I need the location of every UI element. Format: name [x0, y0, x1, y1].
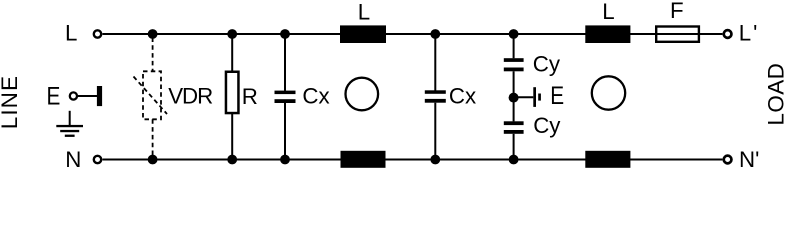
choke L1 core circle: [346, 78, 379, 111]
wire E stub: [78, 95, 97, 97]
wire bottom N line: [103, 159, 723, 161]
svg-text:Cy: Cy: [533, 113, 561, 138]
choke L2 core circle: [592, 76, 625, 109]
junction R top: [227, 29, 237, 39]
capacitor Cy2 plate top: [504, 121, 524, 125]
terminal N: [94, 156, 101, 163]
svg-text:N': N': [739, 147, 759, 172]
node E junction dot: [509, 93, 519, 103]
capacitor Cy1 plate bottom: [504, 68, 524, 72]
varistor VDR dashed diagonal: [134, 77, 168, 115]
choke L2 bottom winding: [585, 151, 630, 168]
capacitor Cx2 plate top: [425, 90, 446, 94]
svg-text:E: E: [47, 82, 61, 110]
junction Cx1 bottom: [280, 155, 290, 165]
svg-text:N: N: [65, 147, 81, 172]
junction Cx1 top: [280, 29, 290, 39]
capacitor Cx2 lead bottom: [434, 103, 436, 160]
resistor R body: [226, 72, 239, 113]
terminal L': [724, 30, 732, 38]
junction Cx2 bottom: [430, 155, 440, 165]
capacitor Cy2 plate bottom: [504, 130, 524, 134]
E tap tall bar: [533, 87, 536, 107]
ground stem: [69, 111, 71, 126]
wire Cy middle: [513, 71, 515, 121]
svg-text:L: L: [602, 0, 614, 24]
junction Cy bottom: [509, 155, 519, 165]
E contact bar: [97, 86, 102, 106]
varistor VDR dashed lead top: [152, 38, 154, 72]
capacitor Cx1 lead top: [284, 34, 286, 91]
svg-text:R: R: [242, 84, 258, 109]
terminal L: [94, 30, 101, 37]
svg-text:L: L: [65, 21, 77, 46]
capacitor Cx2 plate bottom: [425, 99, 446, 103]
capacitor Cx1 plate bottom: [275, 99, 296, 103]
svg-text:F: F: [670, 0, 684, 23]
terminal N': [724, 156, 732, 164]
wire top L line: [103, 33, 723, 35]
svg-text:Cx: Cx: [302, 84, 329, 109]
svg-text:Cx: Cx: [449, 84, 476, 109]
capacitor Cx1 plate top: [275, 91, 296, 95]
capacitor Cy bottom lead: [513, 134, 515, 160]
capacitor Cy1 plate top: [504, 58, 524, 62]
svg-text:VDR: VDR: [168, 83, 213, 108]
ground bar 2: [60, 130, 79, 132]
junction Cx2 top: [430, 29, 440, 39]
junction VDR bottom: [148, 155, 158, 165]
junction VDR top: [148, 29, 158, 39]
varistor VDR dashed lead bottom: [152, 119, 154, 155]
resistor R leads: [231, 34, 233, 160]
capacitor Cx2 lead top: [434, 34, 436, 91]
svg-text:LINE: LINE: [0, 75, 22, 129]
fuse F body: [656, 27, 699, 42]
svg-text:L: L: [358, 0, 370, 24]
svg-text:Cy: Cy: [533, 52, 561, 77]
terminal E (left) circle: [70, 92, 77, 99]
ground bar 1: [56, 125, 83, 127]
junction R bottom: [227, 155, 237, 165]
svg-text:L': L': [739, 20, 760, 45]
ground bar 3: [65, 135, 75, 137]
capacitor Cx1 lead bottom: [284, 103, 286, 160]
wire to E tap: [514, 96, 534, 98]
choke L1 bottom winding: [341, 151, 386, 168]
choke L1 top winding: [340, 25, 386, 43]
varistor VDR dashed body: [143, 71, 161, 119]
E tap short bar: [538, 94, 541, 101]
svg-text:LOAD: LOAD: [764, 63, 789, 126]
capacitor Cy top lead: [513, 34, 515, 58]
choke L2 top winding: [585, 25, 630, 43]
junction Cy top: [509, 29, 519, 39]
svg-text:E: E: [550, 82, 564, 110]
